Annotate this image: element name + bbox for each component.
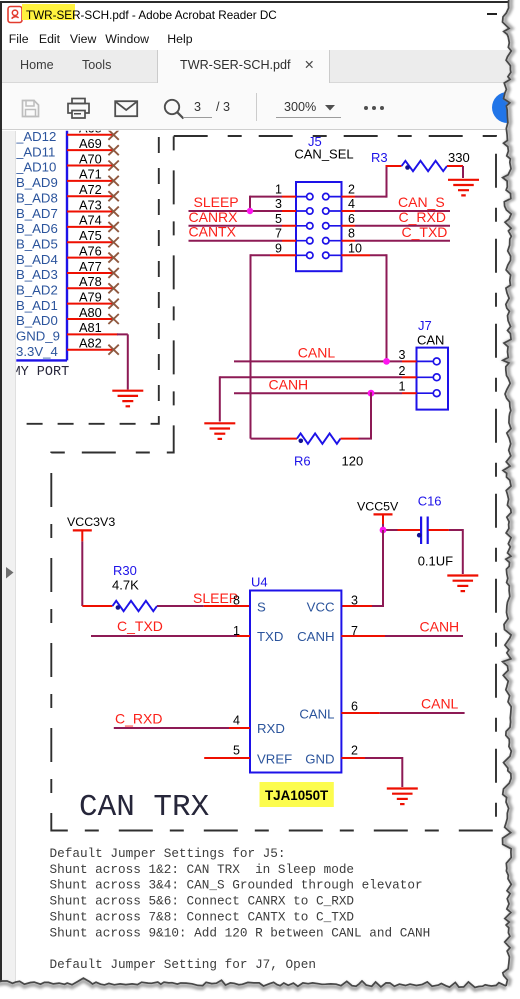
wire net SLEEP (U4 pin8) [157,605,250,607]
wire net CANRX [189,225,283,227]
wire net SLEEP (J5) [189,210,283,212]
wire R6 right [341,438,373,440]
wire net CANTX [189,240,283,242]
window left border [0,1,2,983]
svg-text:A75: A75 [79,228,102,243]
svg-text:6: 6 [351,700,358,714]
svg-text:CANL: CANL [298,345,336,361]
connector pin A69 _AD11 [15,136,119,159]
svg-text:A74: A74 [79,213,102,228]
window top border [0,1,510,3]
svg-text:5: 5 [233,744,240,758]
svg-text:U4: U4 [251,575,268,590]
svg-text:6: 6 [348,212,355,226]
svg-text:A72: A72 [79,182,102,197]
svg-text:R3: R3 [371,150,388,165]
connector pin A79 B_AD1 [16,289,119,312]
wire net CANH (top) [234,392,402,394]
svg-text:A77: A77 [79,259,102,274]
svg-text:CANL: CANL [299,707,334,722]
C16 terminal dot [417,533,422,538]
R6 terminal dot [299,439,304,444]
wire net C_RXD (J5) [355,225,450,227]
svg-text:3: 3 [275,197,282,211]
svg-text:B_AD2: B_AD2 [16,283,58,298]
wire VCC5V to junction [382,524,384,531]
svg-text:8: 8 [233,594,240,608]
connector pin A77 B_AD3 [16,259,119,282]
svg-text:RXD: RXD [257,721,285,736]
svg-text:_AD12: _AD12 [15,129,56,144]
svg-text:Shunt across 9&10: Add 120 R b: Shunt across 9&10: Add 120 R between CAN… [50,925,431,940]
svg-text:J7: J7 [418,318,432,333]
ground (C16) [447,576,478,592]
svg-text:3: 3 [399,348,406,362]
svg-text:1: 1 [275,183,282,197]
svg-text:8: 8 [348,227,355,241]
svg-text:A81: A81 [79,320,102,335]
tab bar [2,50,510,83]
svg-text:4: 4 [348,197,355,211]
connector J? DUMMY PORT body (partially off-screen) [0,129,67,360]
wire junction to C16 [383,529,420,531]
svg-text:B_AD0: B_AD0 [16,313,58,328]
svg-text:B_AD9: B_AD9 [16,175,58,190]
wire net CANL (top) [234,360,402,362]
svg-text:9: 9 [275,241,282,255]
save icon (disabled) [20,98,41,119]
svg-text:A76: A76 [79,243,102,258]
svg-text:C_RXD: C_RXD [399,209,446,225]
svg-text:A73: A73 [79,197,102,212]
nav pane strip [2,131,17,982]
connector pin A73 B_AD7 [16,197,119,220]
svg-text:B_AD4: B_AD4 [16,252,58,267]
svg-text:A82: A82 [79,336,102,351]
svg-text:Shunt across 1&2: CAN TRX in: Shunt across 1&2: CAN TRX in Sleep mode [50,862,355,877]
svg-text:MY PORT: MY PORT [13,365,70,380]
svg-text:C_TXD: C_TXD [117,618,163,634]
svg-text:VCC: VCC [307,600,335,615]
J5 right pin stubs [342,197,356,256]
svg-text:3.3V_4: 3.3V_4 [16,344,58,359]
svg-text:GND: GND [305,752,334,767]
svg-text:B_AD5: B_AD5 [16,236,58,251]
svg-text:CAN TRX: CAN TRX [79,790,210,825]
svg-text:VCC5V: VCC5V [357,500,399,514]
svg-text:B_AD1: B_AD1 [16,298,58,313]
svg-text:CANH: CANH [420,619,460,635]
svg-text:Shunt across 5&6: Connect CANR: Shunt across 5&6: Connect CANRX to C_RXD [50,894,355,909]
svg-text:330: 330 [448,150,470,165]
svg-text:A70: A70 [79,151,102,166]
connector pin A71 B_AD9 [16,167,119,190]
wire J5 pin2 up to R3 [355,166,402,198]
wire R6 bottom left [251,438,298,440]
svg-text:VCC3V3: VCC3V3 [67,515,115,529]
svg-text:B_AD3: B_AD3 [16,267,58,282]
connector pin A68 _AD12 [15,121,119,144]
svg-text:A78: A78 [79,274,102,289]
wire R3 to ground [447,166,463,178]
svg-text:A69: A69 [79,136,102,151]
resistor R3 [402,161,447,171]
print icon [66,97,92,120]
sign-in blue circle [492,92,520,123]
connector pin A78 B_AD2 [16,274,119,297]
page number [194,100,201,114]
svg-text:10: 10 [348,241,362,255]
title bar [2,3,510,28]
connector pin A72 B_AD8 [16,182,119,205]
wire net CANH (U4 pin7) [341,635,463,637]
svg-text:C16: C16 [418,494,442,509]
svg-text:A79: A79 [79,289,102,304]
svg-text:Shunt across 3&4: CAN_S Ground: Shunt across 3&4: CAN_S Grounded through… [50,878,423,893]
svg-text:CANH: CANH [297,629,334,644]
connector pin A70 _AD10 [15,151,119,174]
svg-text:CAN_SEL: CAN_SEL [294,147,353,162]
J5 left pin stubs [282,197,296,256]
svg-text:3: 3 [351,594,358,608]
svg-text:B_AD6: B_AD6 [16,221,58,236]
wire VREF stub (U4 pin5) [204,757,250,759]
R30 terminal dot [116,605,121,610]
ground (J7 pin2) [204,423,235,439]
svg-text:B_AD8: B_AD8 [16,190,58,205]
svg-text:GND_9: GND_9 [16,329,60,344]
connector pin A81 GND_9 [16,320,128,343]
svg-text:CAN_S: CAN_S [398,194,445,210]
junction CANL/J5 pin10 [383,358,390,365]
svg-text:S: S [257,600,266,615]
svg-text:4: 4 [233,714,240,728]
connector pin A82 3.3V_4 [16,336,119,359]
svg-text:2: 2 [348,183,355,197]
dashed border: dummy port section (right/bottom edges) [18,137,159,424]
svg-text:CANH: CANH [269,376,309,392]
search icon [162,97,187,121]
overflow dots [364,106,368,110]
wire J7 pin2 to ground [220,376,402,421]
wire U4 pin2 to ground [341,757,402,787]
nav pane expand arrow [5,566,15,580]
svg-text:1: 1 [399,380,406,394]
wire R6 right to CANH [370,392,372,438]
svg-text:0.1UF: 0.1UF [418,554,453,569]
connector pin A80 B_AD0 [16,305,119,328]
wire net C_TXD (U4 pin1) [91,635,250,637]
svg-text:2: 2 [351,744,358,758]
connector pin A76 B_AD4 [16,243,119,266]
svg-text:CAN: CAN [417,333,444,348]
notes text block [50,846,431,972]
connector J5 CAN_SEL body [296,182,342,271]
svg-text:SLEEP: SLEEP [194,194,239,210]
connector pin A74 B_AD6 [16,213,119,236]
svg-text:B_AD7: B_AD7 [16,206,58,221]
wire J5 pin10 down to CANL [355,254,387,361]
junction SLEEP/pin1 [247,208,253,214]
email icon [114,100,139,118]
svg-text:Shunt across 7&8: Connect CANT: Shunt across 7&8: Connect CANTX to C_TXD [50,909,355,924]
op-amp/IC U4 TJA1050T body [250,591,341,773]
svg-text:CANRX: CANRX [189,209,239,225]
svg-text:_AD11: _AD11 [15,144,55,159]
svg-text:C_TXD: C_TXD [402,224,448,240]
svg-text:Default Jumper Setting for J7,: Default Jumper Setting for J7, Open [50,957,316,972]
svg-text:2: 2 [399,364,406,378]
wire C16 to ground [429,529,463,574]
wire net CAN_S [355,210,450,212]
wire J5 pin9 down to R6 [251,254,283,438]
wire VCC3V3 down to R30 [82,541,112,606]
svg-text:Default Jumper Settings for J5: Default Jumper Settings for J5: [50,846,286,861]
zoom [284,100,316,114]
menu bar [2,28,510,50]
dashed border: CAN_SEL + CAN TRX sections (L-polygon) [51,136,496,831]
wire net C_RXD (U4 pin4) [114,727,250,729]
svg-text:7: 7 [275,227,282,241]
wire J5 pin1 to SLEEP junction [250,196,282,211]
wire net CANL (U4 pin6) [341,712,464,714]
svg-text:R6: R6 [294,454,311,469]
minimize button [487,13,497,15]
part label TJA1050T highlighted [260,782,334,807]
svg-text:4.7K: 4.7K [112,578,139,593]
resistor R6 [297,433,341,443]
ground (U4 GND) [387,789,418,805]
svg-text:CANTX: CANTX [189,224,237,240]
junction CANH/R6 [368,390,375,397]
ground (dummy port GND_9) [112,391,143,407]
svg-text:A80: A80 [79,305,102,320]
ground (R3) [448,180,479,196]
connector J7 CAN body [417,348,449,410]
J7 pin stubs [402,361,417,393]
VCC5V symbol [374,514,393,525]
wire VCC5V down to U4 pin3 [341,530,384,606]
junction VCC5V [380,527,387,534]
svg-text:R30: R30 [113,563,137,578]
svg-text:5: 5 [275,212,282,226]
svg-text:VREF: VREF [257,752,292,767]
svg-text:C_RXD: C_RXD [115,711,162,727]
svg-text:CANL: CANL [421,696,459,712]
svg-text:A71: A71 [79,167,102,182]
capacitor C16 [421,517,428,545]
wire net C_TXD (J5) [355,240,450,242]
svg-text:_AD10: _AD10 [15,160,56,175]
svg-text:A68: A68 [79,121,102,136]
VCC3V3 symbol [73,530,92,541]
toolbar [2,83,510,130]
svg-text:TJA1050T: TJA1050T [265,788,329,803]
resistor R30 [113,601,158,611]
svg-text:TXD: TXD [257,629,283,644]
wire GND_9 to ground [127,334,129,389]
svg-text:120: 120 [342,454,364,469]
svg-text:SLEEP: SLEEP [193,590,238,606]
R3 terminal dot [405,165,410,170]
connector pin A75 B_AD5 [16,228,119,251]
